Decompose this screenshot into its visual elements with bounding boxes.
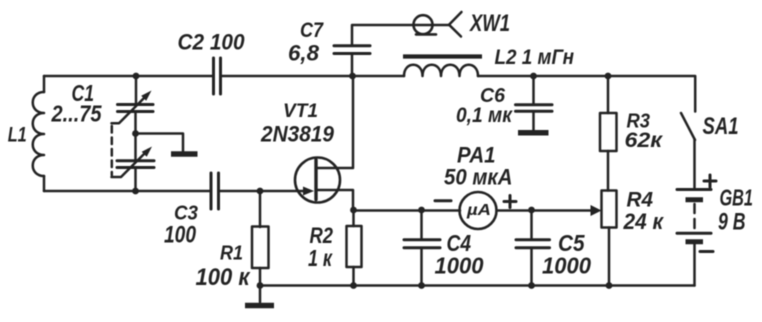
svg-text:1 к: 1 к: [308, 245, 333, 271]
minus sign at battery: [700, 250, 713, 253]
svg-text:С7: С7: [300, 18, 324, 42]
plus sign at battery: [704, 175, 716, 187]
wire ground stem below R1: [259, 286, 262, 303]
battery GB1 cell2 short plate: [686, 239, 704, 244]
wire C7 bottom stem: [351, 55, 354, 77]
capacitor C4: [404, 238, 440, 241]
svg-text:1000: 1000: [542, 252, 591, 278]
capacitor C1 section 1 plates: [118, 103, 154, 106]
capacitor C7: [334, 44, 370, 47]
wire C1 top stem: [135, 76, 138, 104]
plus sign at meter: [504, 196, 516, 208]
ground below R1: [245, 303, 274, 309]
capacitor C1 section 2 plates: [117, 159, 154, 162]
wire battery to bottom rail: [693, 244, 696, 286]
svg-text:R1: R1: [220, 241, 243, 264]
inductor L2 core bar: [403, 54, 482, 58]
wire C1 middle stem: [134, 112, 137, 160]
C1 arrow 2 head: [142, 147, 152, 157]
wire C5 top stem: [530, 210, 533, 239]
capacitor C5: [516, 238, 550, 241]
wire C4 top stem: [420, 210, 423, 239]
wire left branch of tank: [43, 76, 46, 92]
inductor L1: [33, 92, 44, 176]
svg-text:2N3819: 2N3819: [260, 121, 335, 146]
svg-text:100 к: 100 к: [196, 264, 252, 291]
svg-text:0,1 мк: 0,1 мк: [456, 104, 513, 127]
wire C6 bottom stem: [532, 112, 535, 130]
battery GB1 cell1 short plate: [686, 197, 704, 202]
node R2 bottom: [350, 282, 357, 289]
node C1 top: [133, 73, 140, 80]
node source R2 meter: [350, 207, 357, 214]
node R1 bottom: [257, 282, 264, 289]
svg-text:62к: 62к: [625, 129, 664, 152]
svg-text:GB1: GB1: [720, 185, 754, 211]
wire C7 top stem and corner to XW1 line: [352, 25, 449, 45]
ground below C6: [518, 130, 549, 136]
battery GB1 dashed middle: [693, 204, 696, 231]
meter PA1 body: [460, 192, 497, 229]
node R3 top: [605, 73, 612, 80]
wire gate line: [220, 190, 307, 193]
svg-text:100: 100: [164, 222, 197, 249]
wire R4 bottom: [608, 228, 611, 287]
svg-text:50 мкА: 50 мкА: [444, 164, 513, 189]
wire meter line left: [353, 209, 460, 212]
svg-text:VT1: VT1: [283, 100, 318, 122]
wire switch to battery: [693, 139, 696, 188]
wire C1 bottom stem: [134, 168, 137, 191]
svg-text:2...75: 2...75: [51, 101, 103, 127]
svg-text:SA1: SA1: [703, 113, 739, 140]
wire R1 bottom: [259, 268, 262, 286]
wire C5 bottom stem: [530, 249, 533, 286]
capacitor C3: [210, 173, 213, 209]
wire top rail left segment: [44, 75, 212, 78]
svg-text:L2 1 мГн: L2 1 мГн: [495, 46, 575, 69]
C1 arrow 1 head: [141, 91, 151, 101]
wire C6 top stem: [532, 76, 535, 104]
wire top rail right segment with corner to switch: [478, 76, 695, 112]
resistor R3: [600, 113, 617, 151]
inductor L2 winding: [404, 65, 478, 76]
node R4 bottom: [606, 282, 613, 289]
node C7 drain junction: [349, 73, 356, 80]
battery GB1 cell1 long plate: [677, 188, 711, 191]
wire left branch bottom: [43, 176, 46, 191]
node C5 top: [528, 207, 535, 214]
transistor VT1 channel bar: [314, 160, 317, 200]
minus sign at meter: [435, 199, 451, 202]
node C4 bottom: [418, 282, 425, 289]
wire bottom rail: [260, 284, 695, 287]
node gate R1: [257, 188, 264, 195]
ground near C1: [171, 151, 198, 157]
R4 wiper arrowhead: [591, 205, 602, 216]
svg-text:С2 100: С2 100: [178, 29, 245, 54]
svg-text:L1: L1: [8, 123, 27, 147]
wire drain vertical: [316, 76, 353, 168]
connector XW1 bottom tick: [416, 33, 436, 36]
resistor R1: [252, 227, 269, 269]
wire R2 bottom: [352, 267, 355, 286]
capacitor C2: [212, 58, 215, 94]
capacitor C1 gang dashed link: [111, 126, 114, 175]
wire top rail middle segment: [221, 75, 404, 78]
svg-text:XW1: XW1: [468, 11, 510, 37]
transistor VT1 body: [295, 158, 340, 203]
wire R2 top: [352, 210, 355, 226]
switch SA1 blade: [681, 113, 695, 140]
svg-text:6,8: 6,8: [288, 41, 319, 66]
gate arrowhead: [303, 187, 314, 196]
svg-text:µА: µА: [466, 202, 491, 219]
capacitor C1 arrow section 2: [112, 150, 149, 177]
wire meter line right to R4 wiper: [497, 209, 593, 212]
node C1 middle: [132, 130, 139, 137]
node C5 bottom: [528, 282, 535, 289]
resistor R4: [602, 191, 617, 228]
wire tank bottom: [44, 190, 210, 193]
node C4 top: [418, 207, 425, 214]
wire source: [316, 190, 353, 210]
connector XW1 circle: [414, 15, 433, 34]
wire R3 to R4: [607, 151, 610, 191]
capacitor C6: [516, 103, 553, 106]
node C6 top: [530, 73, 537, 80]
svg-text:1000: 1000: [435, 252, 484, 278]
connector XW1 fork: [449, 12, 462, 37]
wire C4 bottom stem: [420, 249, 423, 286]
node C1 bottom: [132, 188, 139, 195]
wire from C1 midpoint to ground: [136, 134, 184, 152]
capacitor C1 arrow section 1: [112, 95, 148, 123]
svg-text:9 В: 9 В: [718, 209, 746, 236]
wire R1 top: [259, 191, 262, 227]
svg-text:24 к: 24 к: [623, 209, 665, 234]
battery GB1 cell2 long plate: [677, 232, 711, 235]
wire R3 top: [607, 76, 610, 113]
resistor R2: [347, 226, 362, 267]
